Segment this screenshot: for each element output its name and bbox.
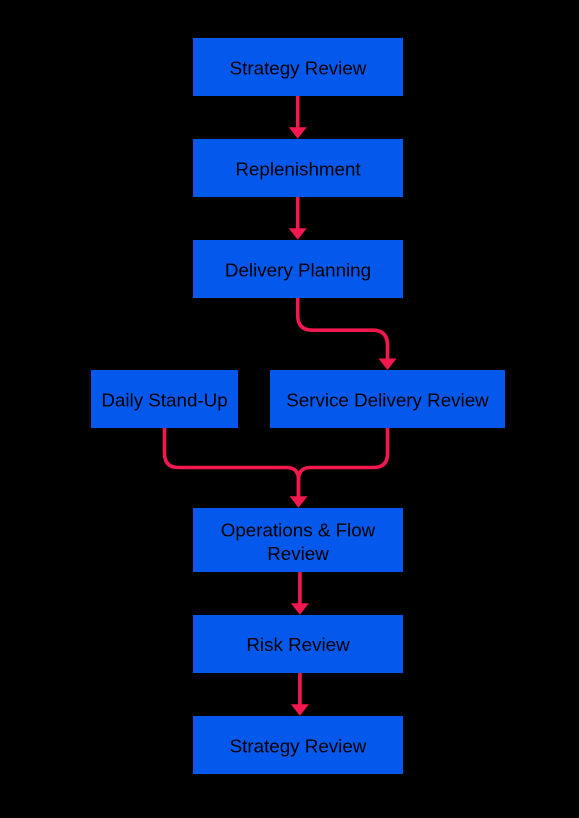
svg-text:Strategy Review: Strategy Review — [230, 57, 367, 78]
svg-text:Review: Review — [267, 543, 329, 564]
arrow: Risk Review to Strategy Review (bottom) — [291, 673, 309, 716]
box: Strategy Review (bottom) — [193, 716, 403, 774]
svg-text:Operations & Flow: Operations & Flow — [221, 520, 376, 541]
box: Service Delivery Review — [270, 370, 505, 428]
arrow: Service Delivery Review merge into Operations & Flow Review — [290, 428, 388, 508]
arrow: Delivery Planning to Service Delivery Review (elbow) — [298, 298, 397, 370]
arrow: Daily Stand-Up merge into Operations & Flow Review — [165, 428, 299, 498]
arrow: Replenishment to Delivery Planning — [289, 197, 307, 240]
svg-text:Daily Stand-Up: Daily Stand-Up — [101, 389, 227, 410]
arrow: Strategy Review to Replenishment — [289, 96, 307, 139]
svg-text:Replenishment: Replenishment — [235, 158, 361, 179]
box: Risk Review — [193, 615, 403, 673]
svg-text:Service Delivery Review: Service Delivery Review — [286, 389, 489, 410]
box: Daily Stand-Up — [91, 370, 238, 428]
svg-text:Risk Review: Risk Review — [246, 634, 350, 655]
svg-text:Delivery Planning: Delivery Planning — [225, 259, 371, 280]
arrow: Operations & Flow Review to Risk Review — [291, 572, 309, 615]
box: Strategy Review (top) — [193, 38, 403, 96]
box: Operations & Flow Review — [193, 508, 403, 572]
box: Delivery Planning — [193, 240, 403, 298]
svg-text:Strategy Review: Strategy Review — [230, 735, 367, 756]
box: Replenishment — [193, 139, 403, 197]
